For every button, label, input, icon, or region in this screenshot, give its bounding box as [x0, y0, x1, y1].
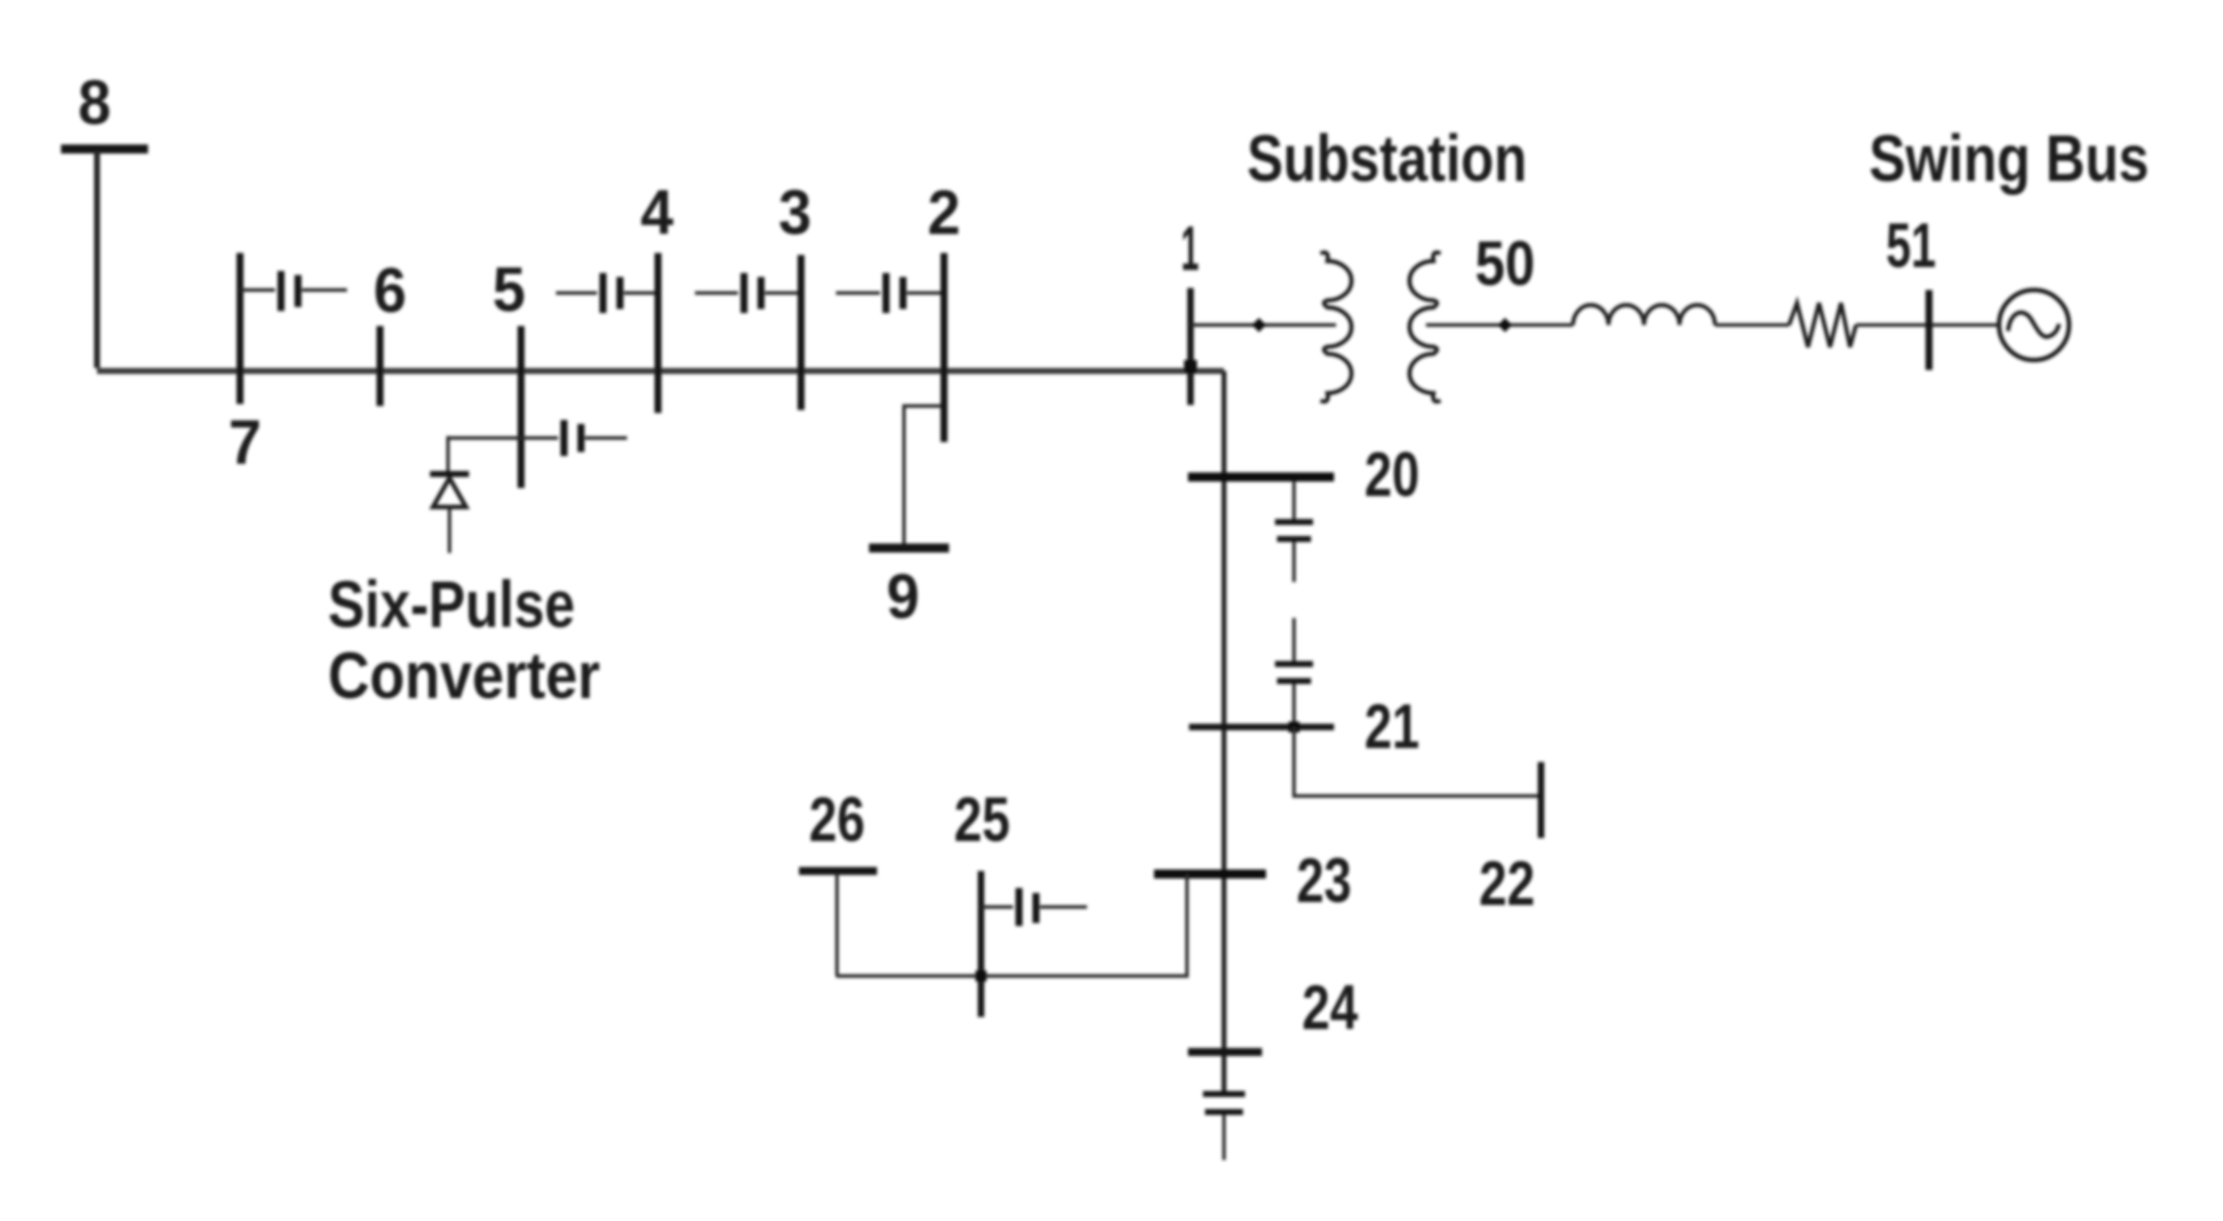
- wire capacitor to bus 21: [1292, 684, 1295, 727]
- diode triangle: [433, 478, 466, 507]
- bus 3: [798, 255, 805, 410]
- wire down to six-pulse converter diode: [446, 436, 449, 471]
- svg-text:51: 51: [1886, 211, 1936, 281]
- bus 6: [377, 326, 384, 406]
- svg-text:1: 1: [1181, 214, 1199, 284]
- wire bus5 lower stub with capacitor: [448, 436, 558, 439]
- inductor (series line reactance): [1573, 305, 1715, 325]
- svg-text:23: 23: [1297, 846, 1352, 916]
- bus 51: [1926, 290, 1933, 370]
- wire bus5 to capacitor (line 5-4): [556, 291, 597, 294]
- wire capacitor to bus 2: [907, 291, 941, 294]
- capacitor below bus 20: [1275, 519, 1313, 525]
- wire capacitor to bus 3: [765, 291, 798, 294]
- AC source sine symbol: [2008, 313, 2059, 337]
- bus 1: [1187, 288, 1194, 405]
- resistor (series line resistance): [1789, 303, 1856, 347]
- bus 4: [655, 253, 662, 413]
- svg-text:3: 3: [779, 178, 812, 248]
- wire capacitor lower lead (open): [1222, 1115, 1225, 1160]
- svg-text:Converter: Converter: [328, 638, 600, 712]
- diode anode lead: [448, 507, 451, 553]
- svg-text:9: 9: [887, 562, 920, 632]
- wire bus 26 stub: [835, 873, 838, 976]
- wire bus 25 to capacitor: [981, 905, 1013, 908]
- wire capacitor stub end: [1040, 905, 1087, 908]
- capacitor between bus 5 and bus 4: [600, 273, 607, 313]
- svg-text:7: 7: [229, 408, 262, 478]
- svg-text:4: 4: [641, 178, 674, 248]
- node dot on wire near bus 50: [1498, 318, 1512, 332]
- bus 20: [1188, 473, 1334, 482]
- svg-text:50: 50: [1475, 229, 1535, 299]
- wire capacitor stub end: [585, 436, 627, 439]
- node junction bus 25 / branch wire: [976, 971, 987, 982]
- wire inductor to resistor: [1715, 323, 1789, 326]
- capacitor right of bus 5: [561, 420, 568, 456]
- bus 24: [1188, 1048, 1262, 1056]
- wire bus 1 to transformer primary: [1191, 323, 1336, 326]
- svg-text:8: 8: [78, 68, 111, 138]
- svg-text:Swing Bus: Swing Bus: [1869, 121, 2149, 195]
- capacitor between bus 4 and bus 3: [741, 273, 748, 313]
- wire vertical feeder bus1 to bus24: [1222, 371, 1227, 1091]
- svg-text:Substation: Substation: [1247, 121, 1527, 195]
- capacitor right of bus 25: [1016, 888, 1023, 926]
- bus 2: [941, 253, 948, 442]
- bus 8: [61, 145, 148, 154]
- svg-text:5: 5: [493, 255, 526, 325]
- svg-text:Six-Pulse: Six-Pulse: [328, 567, 575, 641]
- node junction bus1 / main line: [1184, 360, 1197, 373]
- bus 5: [518, 326, 525, 488]
- wire bus3 to capacitor (line 3-2): [836, 291, 880, 294]
- bus 9: [869, 544, 949, 553]
- wire capacitor to bus 4: [624, 291, 656, 294]
- capacitor between bus 7 and bus 6: [278, 271, 285, 311]
- capacitor between bus 3 and bus 2: [883, 273, 890, 313]
- svg-text:20: 20: [1365, 440, 1420, 510]
- transformer primary winding (substation): [1321, 252, 1352, 401]
- diode of six-pulse converter: cathode bar: [430, 471, 469, 477]
- wire capacitor above bus 21 upper lead (open): [1292, 618, 1295, 661]
- bus 21: [1189, 724, 1334, 731]
- wire transformer secondary to inductor: [1426, 323, 1573, 326]
- wire bus 23 branch down and left to buses 26/25: [836, 874, 1187, 976]
- wire bus 8 to main feeder: [94, 151, 100, 368]
- svg-text:24: 24: [1302, 973, 1358, 1043]
- wire bus 2 to bus 9: [904, 406, 941, 545]
- transformer secondary winding: [1410, 252, 1441, 401]
- wire main horizontal bus line: [97, 368, 1224, 374]
- bus 26: [799, 867, 877, 875]
- bus 7: [237, 253, 244, 404]
- bus 25: [978, 871, 985, 1017]
- wire capacitor lower lead (open): [1292, 542, 1295, 582]
- AC source circle (swing bus generator): [1999, 290, 2069, 360]
- svg-text:21: 21: [1365, 692, 1420, 762]
- svg-text:6: 6: [374, 256, 407, 326]
- svg-text:2: 2: [928, 178, 961, 248]
- capacitor below bus 24: [1203, 1091, 1245, 1097]
- wire bus7 to capacitor: [240, 288, 275, 291]
- bus 23: [1154, 870, 1266, 879]
- bus 22: [1538, 762, 1545, 838]
- wire resistor to swing source: [1856, 323, 2000, 326]
- node junction on bus 21: [1289, 722, 1300, 733]
- node dot on wire: [1252, 318, 1266, 332]
- wire capacitor to bus 6 side: [302, 288, 347, 291]
- svg-text:26: 26: [809, 785, 865, 855]
- wire bus4 to capacitor (line 4-3): [695, 291, 738, 294]
- capacitor above bus 21: [1275, 661, 1313, 667]
- wire bus 21 to bus 22: [1294, 727, 1541, 796]
- wire bus 20 shunt capacitor stub: [1292, 481, 1295, 519]
- svg-text:25: 25: [954, 785, 1010, 855]
- svg-text:22: 22: [1479, 849, 1535, 919]
